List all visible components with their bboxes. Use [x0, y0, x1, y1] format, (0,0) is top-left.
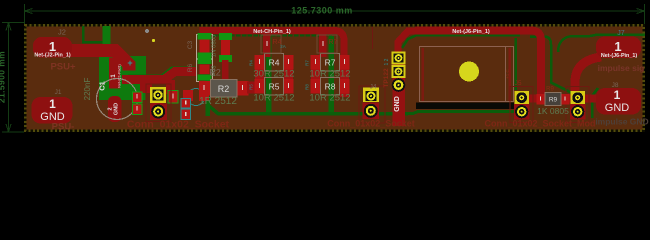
R6 pads	[198, 58, 212, 64]
resistor R7	[309, 54, 350, 80]
connector J4 gold pad top	[363, 88, 379, 103]
svg-text:R4: R4	[269, 58, 280, 68]
green band trace C1 to column	[128, 69, 196, 77]
C3 pads	[198, 33, 212, 40]
red stub down to R1	[140, 82, 152, 93]
red vertical C2 to R2	[222, 60, 229, 80]
red link behind J3 pads	[152, 94, 163, 112]
green bottom horizontal trace	[209, 106, 408, 114]
svg-text:R7: R7	[325, 58, 336, 68]
via gold pad left pair top	[150, 87, 166, 103]
resistor R4	[253, 54, 294, 80]
red vertical R7-R8 left pads link	[311, 55, 320, 93]
svg-text:Net-(C1-Pad1): Net-(C1-Pad1)	[118, 64, 122, 87]
svg-text:2A: 2A	[280, 44, 286, 49]
svg-text:J4: J4	[370, 84, 377, 91]
svg-text:125.7300 mm: 125.7300 mm	[291, 6, 353, 16]
svg-text:Net-(J6-Pin_1): Net-(J6-Pin_1)	[601, 53, 637, 59]
svg-text:+1 C: +1 C	[505, 68, 510, 78]
connector J8 pad 1 GND	[596, 88, 641, 115]
trace red main from J2	[60, 51, 129, 71]
svg-text:J7: J7	[617, 30, 625, 37]
red vertical R4-R5 left pads link	[255, 55, 264, 93]
svg-text:10R 2512: 10R 2512	[309, 93, 350, 104]
red vertical to R4 left pad	[263, 33, 271, 57]
svg-text:1: 1	[614, 88, 621, 102]
module yellow circle	[459, 62, 479, 82]
connector small pads P2	[181, 99, 191, 120]
svg-text:10R 2512: 10R 2512	[253, 93, 294, 104]
green trace from top edge (bottom layer)	[83, 26, 105, 42]
svg-text:Conn_01x02_Socket: Conn_01x02_Socket	[327, 119, 415, 129]
svg-text:Conn_01x02_Socket: Conn_01x02_Socket	[127, 119, 230, 131]
svg-text:1: 1	[614, 39, 621, 54]
capacitor C1 circle outline	[97, 79, 138, 120]
green dashed horizontal under top red trace	[207, 34, 332, 36]
green arc left of J8 pad	[592, 88, 598, 118]
svg-text:R5: R5	[249, 84, 254, 90]
teal refs	[249, 44, 310, 90]
svg-text:1K 0805: 1K 0805	[537, 106, 569, 116]
via dot yellow	[152, 39, 155, 42]
R4 R7 gray names	[261, 35, 281, 53]
resistor R8	[309, 78, 350, 104]
connector J6 gold pads	[570, 91, 586, 120]
dimension top line	[25, 4, 645, 24]
component column C3 box	[197, 35, 213, 59]
green trace under big module	[408, 112, 514, 114]
small cap C2 column	[219, 33, 232, 40]
svg-text:J2: J2	[58, 28, 66, 37]
connector J1 pad 1 GND	[32, 97, 73, 124]
red stub down to gold pad	[166, 80, 175, 94]
red GND bar testpoint column	[393, 55, 406, 126]
svg-text:impulse sig: impulse sig	[598, 63, 645, 73]
connector J7 pad 1	[596, 37, 641, 59]
red vertical R4-R5 right pads link	[284, 55, 293, 93]
svg-text:1N 0805: 1N 0805	[212, 34, 218, 57]
svg-text:C3: C3	[187, 40, 194, 49]
connector J4 gold pad bottom	[363, 103, 380, 120]
svg-text:GND: GND	[605, 102, 630, 114]
svg-text:Net-(J2-Pin_1): Net-(J2-Pin_1)	[34, 53, 70, 59]
green vertical R7 column	[329, 36, 335, 114]
trace red band left	[122, 72, 197, 80]
svg-text:1 2: 1 2	[384, 58, 390, 65]
svg-text:R8: R8	[305, 84, 310, 90]
svg-text:R7: R7	[329, 39, 338, 46]
svg-text:GND: GND	[114, 103, 120, 115]
red trace J8 pad left	[579, 95, 601, 103]
red vertical to R7 left pad	[319, 33, 327, 57]
svg-text:impulse GND: impulse GND	[595, 117, 648, 127]
connector J3 outline	[146, 84, 171, 122]
svg-text:R7: R7	[305, 60, 310, 66]
svg-text:21.5900 mm: 21.5900 mm	[0, 51, 7, 103]
connector J4 outline	[359, 86, 385, 123]
svg-text:TP122: TP122	[383, 68, 390, 88]
svg-text:Net-CH-Pin_1): Net-CH-Pin_1)	[253, 29, 291, 35]
svg-text:PSU+: PSU+	[50, 62, 76, 73]
green column into pour	[103, 26, 111, 60]
connector J5 gold pads	[514, 91, 530, 120]
dimension left line	[2, 23, 24, 133]
board substrate	[24, 24, 645, 132]
trace red top right Net-J6	[415, 31, 541, 99]
svg-text:Net-(J6-Pin_1): Net-(J6-Pin_1)	[452, 29, 490, 35]
green wrap around J7 pad	[558, 35, 645, 53]
red trace TP column up to top right net	[398, 31, 420, 60]
component column R6 box	[197, 60, 213, 82]
svg-text:GND: GND	[394, 96, 401, 112]
green vertical from C2 column down	[206, 80, 211, 116]
via dot gray	[145, 29, 149, 33]
resistor R9	[537, 87, 570, 117]
svg-text:PSU-: PSU-	[52, 122, 75, 133]
connector J6 outline	[566, 87, 589, 123]
trace red top horizontal Net-CH	[203, 31, 344, 61]
red trace J7 pad to J6 connector	[575, 57, 601, 94]
module black strip below	[416, 103, 514, 110]
svg-text:+: +	[127, 58, 132, 68]
connector J2 pad 1	[33, 37, 72, 58]
svg-text:J8: J8	[612, 82, 619, 89]
svg-text:Conn_01x02_Socket_Mod: Conn_01x02_Socket_Mod	[484, 119, 595, 129]
capacitor C1 pin1 red pad	[109, 58, 120, 89]
white pin ticks on pads	[137, 41, 566, 111]
svg-text:R6: R6	[187, 63, 194, 72]
module U1 big outline	[420, 47, 514, 102]
svg-text:220nF: 220nF	[83, 78, 92, 101]
svg-text:1R 2512: 1R 2512	[199, 96, 237, 107]
capacitor C1 GND pad 2	[108, 96, 122, 122]
svg-text:J5: J5	[515, 80, 522, 87]
svg-text:1: 1	[49, 97, 56, 111]
red vertical R7-R8 right pads link	[340, 55, 349, 97]
module divider	[505, 47, 507, 102]
green vertical along module right edge to J5	[514, 38, 517, 90]
green vertical R4 column	[266, 36, 272, 114]
green corner down to J6 area	[530, 37, 571, 93]
via gold pad left pair bottom	[150, 104, 167, 121]
svg-text:R2: R2	[218, 84, 230, 94]
svg-text:R5: R5	[269, 82, 280, 92]
resistor R1 pads (small, below band)	[133, 91, 179, 115]
red horizontal J5-R9-J6 row	[524, 95, 574, 103]
svg-text:R9: R9	[549, 97, 558, 104]
ground pour near C1	[99, 56, 146, 100]
teal circle component D1	[188, 89, 205, 106]
resistor R2	[199, 68, 257, 108]
svg-text:C1: C1	[98, 81, 107, 91]
svg-text:R2: R2	[209, 68, 221, 78]
svg-text:R4: R4	[249, 60, 254, 66]
red vertical feeding component column	[200, 27, 207, 61]
svg-text:R9: R9	[546, 87, 554, 93]
board edge dashed top	[25, 25, 644, 131]
svg-text:J1: J1	[55, 89, 62, 96]
svg-text:R8: R8	[325, 82, 336, 92]
resistor R5	[253, 78, 294, 104]
module inner pin rows	[422, 48, 425, 101]
connector J5 outline	[510, 87, 533, 123]
testpoint gold pads x3	[392, 52, 406, 92]
green trace right section horizontal under net label	[402, 35, 520, 48]
